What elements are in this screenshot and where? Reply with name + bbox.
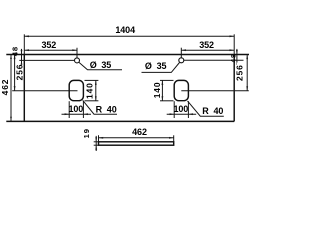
dimension line 1404 <box>24 35 234 37</box>
worktop plate right edge <box>233 55 235 122</box>
svg-text:140: 140 <box>152 82 162 99</box>
svg-text:100: 100 <box>173 104 188 114</box>
centerline left hole <box>19 59 74 61</box>
leader R40 right <box>188 101 224 116</box>
svg-text:R 40: R 40 <box>202 106 223 116</box>
extension overshoot right bar end <box>173 135 175 142</box>
svg-text:462: 462 <box>132 127 147 137</box>
extension overshoot left bar end <box>98 135 100 142</box>
worktop plate bottom edge with left extension line <box>6 120 234 122</box>
svg-text:19: 19 <box>82 128 91 138</box>
dimension line 100 right with outside tails <box>167 113 197 115</box>
dimension line 48 right <box>236 49 238 65</box>
extension lines 100 right <box>173 101 175 118</box>
arrowheads 462 bottom <box>99 137 104 139</box>
leader diameter 35 left <box>79 62 122 70</box>
dimension line 352 left <box>24 49 77 51</box>
extension lines 100 left <box>68 101 70 118</box>
arrowheads 1404 <box>24 35 29 37</box>
sink cutout right rounded rect <box>174 80 188 100</box>
dimension line 100 left with outside tails <box>62 113 92 115</box>
arrowheads 352 left <box>24 49 29 51</box>
svg-text:100: 100 <box>68 104 83 114</box>
arrowheads 140 right <box>162 80 164 85</box>
extension lines 19 dim <box>94 141 99 143</box>
svg-text:Ø 35: Ø 35 <box>145 61 167 71</box>
centerline right sink cutout <box>181 90 249 92</box>
dimension line 462 bottom <box>99 137 174 139</box>
faucet hole circle right <box>179 58 184 63</box>
worktop plate top edge with left/right extension lines <box>6 54 249 56</box>
side view bar outline <box>99 142 174 145</box>
dimension line 19 <box>95 136 97 151</box>
extension lines 140 right <box>160 79 174 81</box>
svg-text:48: 48 <box>11 46 20 56</box>
extension lines 140 left <box>85 79 99 81</box>
worktop plate left edge with extension up to 1404 dim <box>23 34 25 55</box>
dimension line 256 right <box>246 55 248 91</box>
svg-text:352: 352 <box>41 40 56 50</box>
arrowheads 48 left outside <box>21 50 23 55</box>
extension line right hole <box>180 48 182 58</box>
worktop plate left edge <box>23 55 25 122</box>
arrowheads 352 right <box>181 49 186 51</box>
arrowheads 256 right <box>246 55 248 60</box>
svg-text:256: 256 <box>14 64 24 81</box>
arrowheads 140 left <box>95 80 97 85</box>
extension line left hole <box>76 48 78 58</box>
arrowheads 100 right outside <box>170 113 175 115</box>
svg-text:352: 352 <box>199 40 214 50</box>
dimension line 140 left <box>95 80 97 100</box>
dimension line 256 left <box>14 55 16 91</box>
dimension line 140 right <box>161 80 163 100</box>
svg-text:140: 140 <box>84 82 94 99</box>
sink cutout left rounded rect <box>69 80 83 100</box>
dimension line 352 right <box>181 49 234 51</box>
svg-text:R 40: R 40 <box>96 105 117 115</box>
arrowheads 19 outside <box>95 137 97 142</box>
centerline left sink cutout <box>12 90 77 92</box>
arrowheads 100 left outside <box>65 113 70 115</box>
centerline right hole <box>184 59 244 61</box>
svg-text:256: 256 <box>234 64 244 81</box>
dimension line 48 left <box>21 49 23 65</box>
svg-text:48: 48 <box>231 53 238 62</box>
svg-text:Ø 35: Ø 35 <box>90 60 112 70</box>
faucet hole circle left <box>75 58 80 63</box>
arrowheads 256 left <box>14 55 16 60</box>
leader R40 left <box>83 100 117 114</box>
svg-text:462: 462 <box>0 79 10 96</box>
dimension line 462 left <box>10 55 12 122</box>
svg-text:1404: 1404 <box>115 25 135 35</box>
arrowheads 462 left <box>10 54 12 59</box>
leader diameter 35 right <box>142 63 180 73</box>
worktop plate right edge with extension up to 1404 dim <box>233 34 235 55</box>
arrowheads 48 right outside <box>236 50 238 55</box>
text mask 256 right <box>237 63 244 83</box>
